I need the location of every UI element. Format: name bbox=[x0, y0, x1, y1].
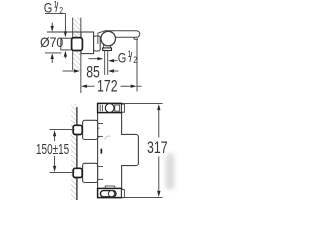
dimension 85 bbox=[63, 56, 119, 94]
watermark smudge bbox=[166, 153, 175, 190]
shower outlet neck bbox=[103, 44, 112, 51]
spout bbox=[105, 31, 140, 40]
supply pipe through wall bbox=[61, 38, 75, 50]
bottom knob cap (bold) bbox=[98, 186, 122, 198]
svg-text:G: G bbox=[118, 50, 127, 65]
knob (circle, seen on axis) bbox=[101, 31, 116, 46]
bottom supply connection bbox=[73, 163, 103, 182]
svg-text:Ø70: Ø70 bbox=[40, 34, 63, 50]
dimension 317 bbox=[122, 103, 168, 197]
dimension 150±15 bbox=[36, 130, 75, 173]
body top slope behind knob bbox=[98, 31, 105, 33]
body outline bbox=[98, 103, 139, 197]
label G1/2 bottom (outlet) bbox=[89, 49, 138, 66]
wall (hatched) bbox=[71, 104, 77, 200]
top tab bbox=[122, 104, 125, 112]
dimension Ø70 bbox=[40, 23, 81, 64]
union nut bbox=[94, 36, 101, 51]
body small marks bbox=[96, 128, 110, 153]
svg-text:/: / bbox=[129, 49, 132, 65]
outlet tube bbox=[105, 51, 108, 76]
escutcheon flange (side) bbox=[81, 32, 94, 54]
top supply connection bbox=[73, 120, 103, 139]
top knob cap (bold) bbox=[98, 103, 122, 112]
bottom tab bbox=[122, 190, 125, 198]
svg-text:317: 317 bbox=[147, 139, 168, 157]
in-wall union (bold square) bbox=[72, 38, 83, 51]
wall (hatched section) bbox=[73, 18, 81, 70]
label G1/2 top bbox=[44, 0, 67, 58]
svg-text:150±15: 150±15 bbox=[36, 140, 69, 158]
svg-text:172: 172 bbox=[97, 78, 118, 96]
svg-text:2: 2 bbox=[59, 6, 63, 16]
dimension 172 bbox=[81, 40, 141, 96]
